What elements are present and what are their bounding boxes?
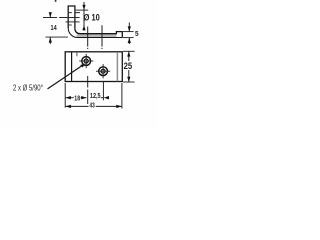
dim Ø10: upper arrow	[82, 5, 85, 10]
extension line: hole1 center down	[87, 76, 89, 104]
svg-text:Ø 10: Ø 10	[84, 12, 100, 23]
hole 2: vertical centerline	[102, 64, 104, 78]
hole 2: countersink outer circle	[99, 67, 108, 76]
dim 14: upper arrow	[49, 12, 52, 17]
extension line: left edge down	[64, 83, 66, 108]
svg-text:14: 14	[51, 23, 58, 32]
leg hole centerline (also 14-dim upper extension)	[43, 17, 80, 19]
hole 1: vertical centerline	[85, 54, 87, 68]
countersunk hole 2 centerline in front view	[101, 25, 103, 49]
dim Ø10: vertical dimension line	[83, 2, 85, 31]
svg-text:18: 18	[74, 94, 80, 103]
dim 5: upper arrow	[128, 26, 131, 31]
dim 18: dimension line	[66, 97, 87, 99]
svg-text:5: 5	[135, 29, 139, 38]
dim 12,5: dimension line stub	[101, 97, 104, 99]
leader line for countersunk holes	[48, 64, 85, 89]
extension line: hole2 center down	[102, 82, 104, 101]
dim 14: lower dimension line	[49, 37, 51, 44]
dim 5: lower arrow	[128, 38, 131, 43]
leg hole hidden edge bottom	[66, 21, 80, 23]
dim 5: upper extension line	[122, 31, 133, 33]
dim 18: left arrow	[66, 96, 71, 99]
dim 25: upper arrow	[127, 51, 130, 56]
leg hole center dash	[68, 24, 72, 26]
svg-text:25: 25	[124, 61, 133, 71]
bracket front view: outline (vertical leg, fillets, base plate)	[68, 6, 122, 38]
dim 25: lower extension line	[123, 81, 135, 83]
dim 5: dimension line	[128, 23, 130, 45]
dim 14: dimension line above	[49, 12, 51, 17]
dim 14: lower arrow	[49, 37, 52, 42]
hole 1: horizontal centerline	[79, 60, 93, 62]
dim 43: dimension line	[66, 105, 122, 107]
svg-text:2 x Ø 5/90°: 2 x Ø 5/90°	[13, 84, 43, 93]
dim 25: dimension line	[128, 52, 130, 83]
hole 1: inner circle	[84, 59, 88, 63]
hole 1: countersink outer circle	[82, 57, 91, 66]
hole 2: horizontal centerline	[96, 70, 110, 72]
dim Ø10: lower arrow	[82, 25, 85, 30]
dim 12,5: outside arrow right	[104, 96, 109, 99]
hole 2: inner circle	[101, 69, 105, 73]
leader arrowhead	[80, 64, 85, 68]
dim 25: upper extension line	[123, 50, 135, 52]
svg-text:12,5: 12,5	[90, 91, 101, 100]
top view: leg edge line	[71, 52, 73, 82]
extension line: right edge down	[121, 83, 123, 109]
svg-text:43: 43	[90, 101, 95, 110]
bracket front view: gray fill of base plate section	[77, 34, 117, 37]
dim 18: right arrow	[81, 96, 86, 99]
top view: gray bend line right	[116, 52, 118, 81]
dim 43: right arrow	[116, 105, 121, 108]
dim 25: lower arrow	[127, 77, 130, 82]
top view: short stub line	[76, 52, 78, 57]
top view: plate rectangle	[65, 52, 122, 82]
countersunk hole 1 centerline in front view	[87, 27, 89, 50]
tiny scan dot top	[55, 0, 57, 2]
dim Ø10: upper extension line	[76, 9, 88, 11]
dim 5: lower extension line	[123, 37, 134, 39]
leg hole hidden edge top (dashed)	[68, 12, 80, 14]
dim 14: lower extension line (to base bottom)	[46, 36, 69, 38]
dim 43: left arrow	[66, 105, 71, 108]
